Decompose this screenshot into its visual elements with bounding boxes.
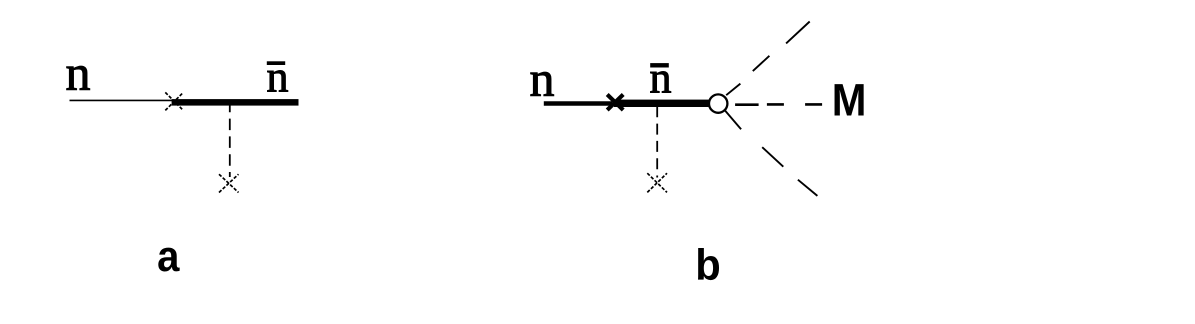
wire: medium neutron line (diagram b): [544, 101, 612, 105]
node: lower vertex X (dashed cross), diagram a: [219, 174, 239, 192]
svg-text:M: M: [832, 75, 867, 126]
svg-text:b: b: [695, 241, 721, 290]
label n-bar (antineutron, diagram b): overbar: [650, 63, 669, 67]
wire: thin neutron propagator line (diagram a): [70, 99, 173, 101]
wire: dashed vertical propagator (diagram b): [656, 106, 658, 177]
wire: lower-right dashed meson line, diagram b: [725, 110, 818, 196]
svg-text:n: n: [66, 44, 91, 100]
wire: thick antineutron line (diagram b): [614, 100, 709, 107]
svg-text:n: n: [267, 52, 289, 101]
node: oscillation vertex X (dashed cross) on line, diagram a: [165, 92, 183, 110]
node: oscillation vertex X (bold solid cross), diagram b: [607, 95, 623, 111]
wire: dashed vertical propagator (diagram a): [229, 101, 231, 177]
svg-text:n: n: [650, 53, 672, 102]
node: open circle vertex (decay blob), diagram b: [709, 94, 727, 112]
svg-text:n: n: [530, 50, 555, 106]
svg-text:a: a: [157, 232, 180, 281]
label n-bar (antineutron, diagram a): overbar: [267, 61, 285, 65]
node: lower vertex X (dashed cross), diagram b: [647, 173, 667, 192]
wire: upper-right dashed meson line, diagram b: [726, 22, 810, 96]
wire: horizontal dashed meson line to M, diagram b: [735, 103, 822, 106]
wire: thick antineutron line (diagram a): [172, 99, 299, 106]
